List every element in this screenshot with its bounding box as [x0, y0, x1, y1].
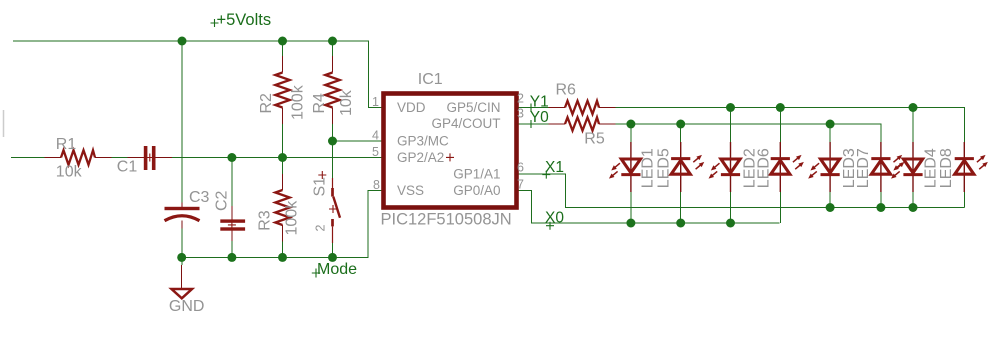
- svg-text:R5: R5: [584, 131, 605, 148]
- svg-text:GP4/COUT: GP4/COUT: [431, 116, 500, 131]
- svg-text:5: 5: [372, 145, 379, 159]
- svg-text:4: 4: [372, 129, 379, 143]
- svg-text:7: 7: [517, 178, 524, 192]
- svg-text:C1: C1: [117, 159, 138, 176]
- svg-text:GP3/MC: GP3/MC: [397, 133, 449, 148]
- svg-text:GP1/A1: GP1/A1: [453, 166, 500, 181]
- svg-text:1: 1: [372, 95, 379, 109]
- svg-text:Y1: Y1: [530, 93, 549, 110]
- svg-text:IC1: IC1: [418, 71, 443, 88]
- svg-text:LED7: LED7: [855, 148, 872, 188]
- svg-text:R1: R1: [56, 136, 77, 153]
- svg-text:X1: X1: [545, 159, 564, 176]
- svg-text:8: 8: [373, 178, 380, 192]
- svg-text:PIC12F510508JN: PIC12F510508JN: [381, 211, 512, 229]
- svg-text:LED1: LED1: [639, 148, 656, 188]
- svg-text:2: 2: [517, 92, 524, 106]
- svg-text:LED8: LED8: [938, 148, 955, 188]
- svg-text:100k: 100k: [284, 200, 301, 236]
- svg-text:R2: R2: [258, 93, 275, 114]
- svg-text:+5Volts: +5Volts: [217, 11, 272, 29]
- svg-text:6: 6: [517, 161, 524, 175]
- svg-text:Mode: Mode: [317, 261, 357, 278]
- svg-text:GND: GND: [169, 298, 205, 315]
- svg-text:100k: 100k: [290, 84, 307, 120]
- svg-text:S1: S1: [312, 177, 329, 197]
- svg-text:VSS: VSS: [397, 183, 424, 198]
- svg-text:C2: C2: [214, 190, 231, 211]
- svg-text:R3: R3: [256, 210, 273, 231]
- svg-text:10k: 10k: [338, 89, 355, 116]
- svg-text:R6: R6: [556, 82, 577, 99]
- svg-text:X0: X0: [545, 210, 564, 227]
- svg-text:3: 3: [517, 107, 524, 121]
- svg-text:LED6: LED6: [756, 148, 773, 188]
- svg-text:LED4: LED4: [923, 148, 940, 188]
- svg-text:2: 2: [314, 225, 328, 232]
- svg-text:VDD: VDD: [397, 100, 426, 115]
- svg-text:GP0/A0: GP0/A0: [453, 183, 500, 198]
- svg-text:GP2/A2: GP2/A2: [397, 150, 444, 165]
- svg-text:R4: R4: [311, 93, 328, 114]
- svg-text:GP5/CIN: GP5/CIN: [446, 100, 500, 115]
- svg-text:C3: C3: [189, 189, 210, 206]
- svg-text:10k: 10k: [56, 164, 83, 181]
- svg-text:Y0: Y0: [530, 109, 549, 126]
- svg-text:LED5: LED5: [655, 148, 672, 188]
